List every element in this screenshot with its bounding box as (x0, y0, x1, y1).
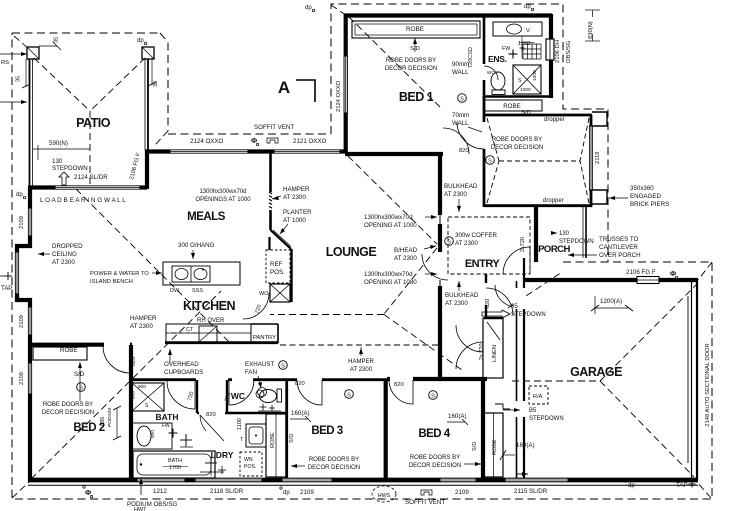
svg-text:L O A D B E A R I N G W A L: L O A D B E A R I N G W A L L (40, 197, 126, 204)
svg-text:85: 85 (511, 304, 518, 310)
svg-text:DECOR DECISION: DECOR DECISION (491, 145, 543, 151)
svg-text:POS.: POS. (270, 269, 285, 276)
svg-text:MEALS: MEALS (187, 211, 226, 223)
front bedroom ceiling lines (487, 118, 589, 203)
svg-text:1000: 1000 (532, 70, 538, 81)
window 2121 OXXO front (274, 150, 340, 153)
svg-text:820: 820 (206, 412, 216, 418)
window 2118 SL/DR (195, 478, 262, 482)
window 2106 FG garage (637, 277, 659, 284)
patio dim 35 right (148, 59, 159, 87)
svg-text:1300hx300wx70d: 1300hx300wx70d (199, 189, 246, 195)
front bedroom door (457, 122, 484, 149)
bath floor waste (162, 423, 193, 447)
patio side walls (30, 59, 149, 186)
svg-text:2109: 2109 (300, 489, 314, 496)
svg-text:BED 4: BED 4 (418, 428, 450, 440)
svg-text:STEPDOWN: STEPDOWN (52, 165, 88, 172)
bed3 robe (266, 414, 286, 477)
2109 window labels left (19, 216, 25, 385)
patio dim 35 top (39, 37, 61, 50)
svg-text:BED 1: BED 1 (399, 90, 434, 104)
svg-text:HAMPER: HAMPER (348, 359, 374, 365)
bed2 door (103, 346, 130, 373)
hamper hall label (348, 347, 374, 373)
garage R/A box (529, 386, 548, 404)
svg-text:160(A): 160(A) (516, 442, 535, 449)
ldry tub (240, 424, 266, 447)
svg-text:AT 1000: AT 1000 (283, 217, 306, 224)
bed3 door (297, 380, 322, 405)
svg-text:DECOR DECISION: DECOR DECISION (385, 66, 437, 72)
bed1 robe (352, 21, 480, 38)
720 labels bath/wc doors (187, 391, 232, 402)
svg-text:FW: FW (502, 46, 510, 52)
90mm wall label (452, 47, 474, 76)
svg-text:B5: B5 (529, 408, 537, 414)
85 stepdown upper (482, 304, 546, 318)
svg-text:AT 2300: AT 2300 (444, 191, 467, 198)
svg-text:300w COFFER: 300w COFFER (455, 232, 497, 239)
svg-text:2124 OXXO: 2124 OXXO (190, 138, 224, 145)
kitchen nib wall (268, 237, 270, 250)
ens robe (484, 100, 542, 111)
bed2 wall stub (130, 343, 132, 347)
svg-text:R/A: R/A (533, 394, 543, 400)
ref pos label (270, 261, 285, 276)
tap left (0, 272, 12, 292)
svg-text:2109: 2109 (19, 372, 25, 385)
svg-text:835: 835 (100, 417, 106, 426)
svg-text:dp: dp (283, 490, 290, 496)
porch labels (538, 231, 594, 255)
svg-text:STEPDOWN: STEPDOWN (559, 239, 594, 245)
svg-text:TRUSSES TO: TRUSSES TO (599, 236, 638, 243)
svg-text:HWS: HWS (378, 493, 391, 499)
left dim arrows (0, 52, 30, 104)
svg-text:BULKHEAD: BULKHEAD (444, 183, 478, 190)
svg-text:2118 SL/DR: 2118 SL/DR (210, 488, 244, 495)
svg-text:WO: WO (259, 291, 269, 297)
85 stepdown lower (495, 404, 564, 422)
bathtub (133, 451, 215, 478)
entry door arc (503, 247, 530, 274)
svg-text:2106 DH: 2106 DH (555, 40, 561, 63)
svg-text:ENS.: ENS. (488, 54, 507, 64)
label 2106 DH OBS/SG (555, 40, 572, 63)
svg-text:dp: dp (16, 192, 23, 198)
svg-text:OVER PORCH: OVER PORCH (599, 252, 641, 259)
bed4 door (389, 380, 413, 404)
svg-text:2109: 2109 (455, 489, 469, 496)
svg-text:130: 130 (52, 158, 63, 165)
entry nib wall (484, 317, 503, 319)
svg-text:OVERHEAD: OVERHEAD (164, 361, 199, 368)
window 2124 OXXO bed1 (344, 56, 347, 113)
svg-text:CEILING: CEILING (52, 251, 77, 258)
window 2118 front bedroom (590, 126, 593, 190)
svg-text:AT 2300: AT 2300 (52, 259, 75, 266)
ref position dashed box (266, 250, 290, 283)
cooktop (199, 326, 217, 342)
svg-text:STEPDOWN: STEPDOWN (529, 416, 564, 422)
svg-text:dropper: dropper (544, 117, 565, 123)
svg-text:V.: V. (526, 28, 531, 34)
patio door 2124 SL/DR (55, 186, 140, 189)
svg-text:TAP: TAP (1, 286, 12, 292)
brick piers label (609, 185, 669, 208)
bed1 / lounge wall (345, 152, 443, 156)
svg-text:2109: 2109 (19, 216, 25, 229)
bed2 top wall (30, 343, 104, 347)
hamper at 2300 left (130, 315, 157, 330)
bay window (16, 252, 19, 294)
overhead cupboards (164, 349, 203, 376)
svg-text:PANTRY: PANTRY (253, 335, 276, 341)
svg-text:ROBE: ROBE (60, 347, 78, 354)
svg-text:160(A): 160(A) (291, 410, 310, 417)
ens 1200 dim (518, 36, 534, 59)
wc toilet (256, 389, 282, 411)
svg-text:S/D: S/D (74, 371, 85, 378)
linen closet (483, 318, 503, 378)
svg-text:dp: dp (628, 483, 635, 489)
garage walls (513, 258, 698, 480)
lounge ceiling lines (270, 156, 462, 370)
svg-text:820: 820 (295, 381, 305, 387)
svg-text:S: S (431, 393, 435, 399)
bed1 ceiling diagonal (349, 17, 440, 107)
bath vanity (132, 423, 172, 449)
entry stub wall (485, 274, 487, 283)
window 2109 bed4 (440, 478, 476, 482)
hamper planter labels (272, 186, 312, 234)
svg-text:EXHAUST: EXHAUST (245, 361, 274, 368)
svg-text:RS: RS (1, 60, 9, 66)
ens walls (483, 17, 551, 97)
160(A) labels (290, 410, 535, 460)
kitchen south wall / bench (165, 324, 278, 343)
svg-text:ROBE DOORS BY: ROBE DOORS BY (43, 402, 93, 408)
svg-text:AT 2300: AT 2300 (130, 323, 153, 330)
svg-text:AT 2300: AT 2300 (394, 255, 417, 262)
brick pier bottom (592, 190, 607, 204)
svg-text:BRICK PIERS: BRICK PIERS (630, 201, 669, 208)
svg-text:CANTILEVER: CANTILEVER (599, 244, 638, 251)
svg-text:ROBE: ROBE (270, 432, 276, 448)
svg-text:ROBE DOORS BY: ROBE DOORS BY (410, 455, 460, 461)
svg-text:1200(A): 1200(A) (600, 298, 622, 305)
svg-text:1700: 1700 (169, 465, 181, 471)
svg-text:WC: WC (487, 70, 495, 75)
patio ceiling lines (34, 58, 145, 186)
bed2 robe (33, 347, 87, 360)
svg-text:HWT: HWT (134, 507, 147, 511)
pantry door (243, 293, 269, 319)
svg-text:PORCH: PORCH (538, 244, 570, 255)
patio posts (27, 47, 154, 59)
svg-text:ENGAGED: ENGAGED (630, 193, 661, 200)
svg-text:KITCHEN: KITCHEN (183, 299, 236, 313)
hall door (486, 288, 513, 315)
trusses label (568, 236, 641, 259)
wet area walls (131, 345, 387, 480)
wc door (229, 380, 254, 405)
meals labels (187, 189, 251, 223)
svg-text:PODIUM: PODIUM (107, 408, 113, 427)
svg-text:PATIO: PATIO (76, 116, 111, 130)
130 stepdown patio (52, 158, 88, 185)
svg-text:S: S (460, 96, 464, 102)
300 o/hang label (178, 242, 215, 259)
svg-text:POWER & WATER TO: POWER & WATER TO (90, 271, 149, 277)
shower 900x900 (131, 383, 165, 411)
svg-text:DROPPED: DROPPED (52, 243, 83, 250)
svg-text:BED 3: BED 3 (311, 425, 342, 437)
svg-text:ROBE DOORS BY: ROBE DOORS BY (309, 457, 359, 463)
svg-text:LDRY: LDRY (211, 450, 234, 460)
ens shower grate (523, 44, 541, 59)
svg-text:350x360: 350x360 (630, 185, 654, 192)
svg-text:590(N): 590(N) (49, 140, 68, 147)
svg-text:900: 900 (150, 430, 156, 438)
svg-text:CT: CT (186, 327, 194, 333)
svg-text:ROBE: ROBE (406, 26, 424, 33)
window 2106 DH ens (546, 39, 554, 60)
svg-text:2115 SL/DR: 2115 SL/DR (514, 488, 548, 495)
svg-text:35: 35 (153, 81, 159, 87)
svg-text:1200: 1200 (518, 41, 530, 47)
svg-text:S: S (447, 239, 451, 245)
svg-text:2x720: 2x720 (520, 237, 526, 252)
svg-text:B/HEAD: B/HEAD (394, 247, 418, 254)
svg-text:OPENINGS AT 1000: OPENINGS AT 1000 (195, 197, 251, 203)
s/d labels bed3 bed4 (289, 434, 478, 451)
ldry tiling crosses (200, 457, 226, 476)
svg-text:FW: FW (162, 423, 170, 429)
bath lobby door (200, 415, 224, 441)
svg-text:LINEN: LINEN (492, 345, 498, 362)
svg-text:OPENING AT 1080: OPENING AT 1080 (364, 279, 417, 286)
svg-text:ROBE: ROBE (492, 439, 498, 455)
svg-text:DECOR DECISION: DECOR DECISION (308, 465, 360, 471)
svg-text:S/D: S/D (289, 434, 295, 443)
entry coffer dashed box (448, 217, 530, 274)
bed2 ceiling diagonal (31, 291, 221, 479)
lounge-entry door (422, 254, 448, 280)
bed2 labels (42, 347, 137, 434)
svg-text:dp: dp (137, 38, 144, 44)
svg-text:HAMPER: HAMPER (130, 315, 157, 322)
bath door (167, 381, 195, 409)
svg-text:dropper: dropper (543, 198, 564, 204)
svg-text:dp: dp (524, 4, 531, 10)
svg-text:CUPBOARDS: CUPBOARDS (164, 369, 203, 376)
svg-text:1212: 1212 (153, 488, 167, 495)
svg-text:S: S (488, 158, 492, 164)
bulkhead label lower (445, 281, 479, 307)
svg-text:720CSD: 720CSD (468, 47, 474, 68)
section marker A (278, 78, 315, 102)
svg-text:AT 2300: AT 2300 (350, 367, 373, 373)
svg-text:2x 720: 2x 720 (479, 343, 485, 360)
svg-text:AT 2300: AT 2300 (283, 194, 306, 201)
bulkhead label upper (444, 183, 478, 212)
hws circle (372, 486, 396, 502)
70mm wall label (452, 112, 482, 132)
ens floor waste (502, 46, 525, 59)
window 1212 (137, 478, 185, 482)
svg-text:2121 OXXO: 2121 OXXO (293, 138, 327, 145)
svg-text:RH OVER: RH OVER (197, 318, 225, 324)
svg-text:S/D: S/D (472, 442, 478, 451)
svg-text:STEPDOWN: STEPDOWN (511, 312, 546, 318)
svg-text:1300hx300wx70d: 1300hx300wx70d (364, 271, 413, 278)
svg-text:dp: dp (305, 5, 312, 11)
svg-text:1000: 1000 (520, 87, 531, 93)
svg-text:DECOR DECISION: DECOR DECISION (409, 463, 461, 469)
bottom labels (83, 472, 696, 511)
exhaust fan symbol (258, 388, 267, 397)
brick pier top (592, 112, 607, 126)
window 2124 OXXO front (170, 150, 248, 153)
svg-text:35: 35 (54, 37, 60, 43)
svg-text:S: S (281, 363, 285, 369)
svg-text:SOFFIT VENT: SOFFIT VENT (254, 124, 294, 131)
svg-text:820: 820 (131, 357, 137, 366)
svg-text:2124 OXXO: 2124 OXXO (336, 80, 342, 112)
svg-text:820: 820 (394, 382, 404, 388)
bed1 labels (385, 26, 466, 104)
svg-text:820: 820 (485, 299, 491, 308)
svg-text:SSS: SSS (192, 288, 203, 294)
window 2109 bed3 (282, 478, 332, 482)
podium dims bed2 (100, 406, 121, 440)
wn pos dashed box (240, 452, 262, 476)
windows 2109 left wall (28, 208, 31, 236)
lounge opening labels (364, 214, 437, 286)
svg-text:820: 820 (459, 148, 469, 154)
svg-text:WALL: WALL (452, 69, 469, 76)
svg-text:LOUNGE: LOUNGE (326, 245, 377, 259)
hall door 2 (495, 285, 510, 306)
svg-text:300 O/HANG: 300 O/HANG (178, 242, 215, 249)
oven wall (290, 249, 292, 302)
svg-text:OPENING AT 1000: OPENING AT 1000 (364, 222, 417, 229)
svg-text:ROBE DOORS BY: ROBE DOORS BY (492, 137, 542, 143)
ens shower (513, 65, 541, 94)
svg-text:BATH: BATH (168, 458, 182, 464)
bed3 labels (291, 381, 360, 471)
island bench (163, 262, 240, 285)
svg-text:ENTRY: ENTRY (465, 258, 501, 270)
linen labels (479, 343, 498, 362)
svg-text:FAN: FAN (245, 369, 257, 376)
svg-text:1100: 1100 (237, 418, 243, 430)
svg-text:HAMPER: HAMPER (283, 186, 310, 193)
bed4 labels (394, 382, 481, 469)
bath podium arrow (139, 478, 143, 495)
bedroom hall walls (386, 379, 487, 480)
svg-text:TAP: TAP (676, 482, 688, 489)
svg-text:S: S (518, 78, 522, 84)
svg-text:90mm: 90mm (452, 61, 469, 68)
bed4 robe (484, 413, 503, 477)
garage ceiling lines (512, 284, 697, 477)
exhaust fan label (245, 361, 287, 388)
pantry walls (251, 324, 278, 343)
svg-text:OBS/SG: OBS/SG (566, 40, 572, 63)
dim 830N (585, 10, 600, 41)
svg-text:2148 AUTO SECTIONAL DOOR: 2148 AUTO SECTIONAL DOOR (705, 343, 711, 426)
svg-text:70mm: 70mm (452, 112, 469, 119)
svg-text:ROBE DOORS BY: ROBE DOORS BY (386, 58, 436, 64)
labels front windows (190, 124, 327, 146)
hall bulkhead dashed (280, 344, 438, 346)
front bedroom labels (486, 110, 601, 204)
svg-text:BATH: BATH (156, 412, 179, 422)
linen doors (456, 325, 483, 369)
svg-text:2106 FG F: 2106 FG F (626, 269, 656, 276)
window 2115 SL/DR (505, 478, 568, 482)
bed1 door (443, 128, 469, 154)
svg-text:S/D: S/D (521, 110, 531, 116)
dim 590N (33, 140, 90, 160)
svg-text:1300hx300wx70d: 1300hx300wx70d (364, 214, 413, 221)
svg-text:GARAGE: GARAGE (570, 365, 622, 379)
ens vanity (493, 22, 542, 36)
entry / lounge wall (438, 154, 442, 379)
robe labels rotated (270, 432, 498, 455)
svg-text:SOFFIT VENT: SOFFIT VENT (405, 499, 445, 506)
svg-text:830(N): 830(N) (588, 21, 594, 39)
1200(A) dim (591, 296, 633, 314)
svg-text:BULKHEAD: BULKHEAD (445, 292, 479, 299)
svg-text:130: 130 (559, 231, 570, 237)
svg-text:160(A): 160(A) (448, 413, 467, 420)
svg-text:REF: REF (270, 261, 283, 268)
entry labels (445, 232, 526, 270)
svg-text:2118: 2118 (595, 152, 601, 164)
svg-text:900: 900 (131, 391, 137, 399)
dw sss labels (170, 288, 203, 294)
porch walls (536, 206, 586, 262)
oven tower (270, 284, 290, 302)
svg-text:WN: WN (244, 457, 253, 463)
svg-text:DW: DW (170, 288, 180, 294)
svg-text:35: 35 (16, 76, 22, 82)
ens toilet (487, 70, 505, 95)
svg-text:DECOR DECISION: DECOR DECISION (42, 410, 94, 416)
svg-text:AT 2300: AT 2300 (445, 300, 468, 307)
svg-text:ISLAND BENCH: ISLAND BENCH (90, 279, 133, 285)
svg-text:900: 900 (138, 384, 146, 390)
svg-text:ROBE: ROBE (503, 103, 521, 110)
svg-text:S: S (347, 392, 351, 398)
kitchen ceiling diagonal (76, 189, 231, 344)
svg-text:2109: 2109 (19, 315, 25, 328)
front bedroom walls (484, 96, 592, 207)
svg-text:AT 2300: AT 2300 (455, 240, 478, 247)
power water label (90, 271, 162, 285)
svg-text:POS.: POS. (244, 464, 256, 470)
svg-text:PLANTER: PLANTER (283, 209, 312, 216)
svg-text:2124 SL/DR: 2124 SL/DR (74, 174, 108, 181)
meals/lounge wall + planter (269, 153, 291, 249)
svg-text:WALL: WALL (452, 120, 469, 127)
ens door (484, 66, 498, 80)
svg-text:WC: WC (231, 391, 245, 401)
